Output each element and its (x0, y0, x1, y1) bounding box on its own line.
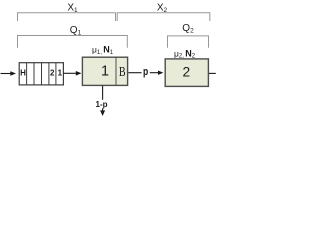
svg-text:1: 1 (101, 64, 109, 80)
branch arrowhead (100, 110, 105, 116)
svg-text:H: H (20, 68, 26, 77)
svg-text:B: B (119, 64, 126, 80)
brace Q1 (18, 36, 128, 48)
svg-text:2: 2 (182, 65, 190, 80)
svg-text:2: 2 (50, 68, 55, 77)
input arrow (1, 73, 11, 75)
brace X2 (117, 13, 210, 21)
server1 B divider (115, 57, 117, 85)
svg-text:1-p: 1-p (96, 100, 108, 109)
label 1-p (96, 100, 108, 108)
brace Q2 (168, 36, 209, 48)
queue box (19, 63, 63, 85)
server box 2 (165, 59, 208, 87)
queue dividers (27, 63, 56, 85)
wire arrow from server1 to server2 (128, 71, 163, 75)
output line (209, 72, 216, 74)
svg-text:p: p (143, 66, 148, 78)
server box 1 (82, 57, 127, 85)
arrow queue to server1 (64, 72, 77, 74)
svg-text:1: 1 (58, 68, 63, 77)
branch 1-p line (102, 86, 104, 111)
brace X1 (18, 13, 116, 21)
